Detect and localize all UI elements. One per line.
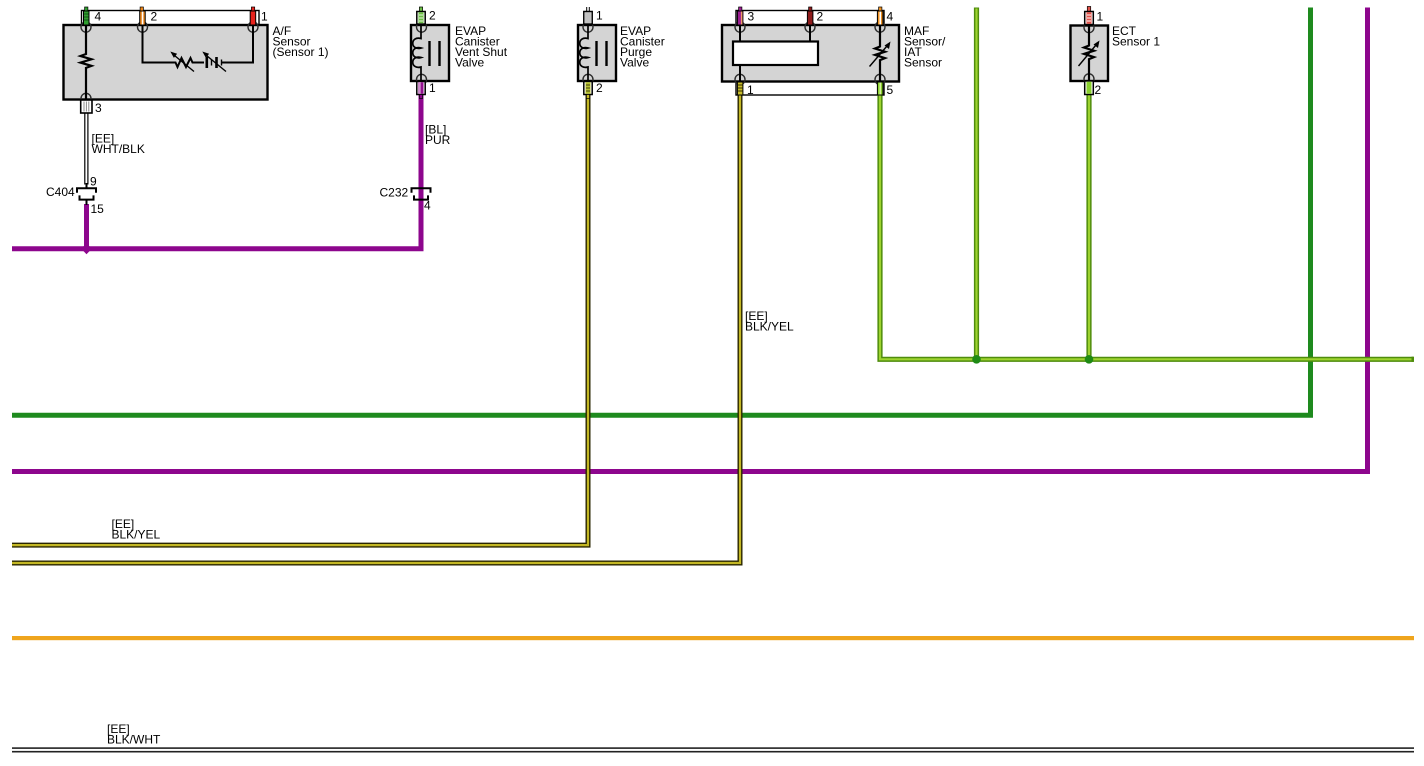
svg-text:BLK/YEL: BLK/YEL [745,320,794,334]
svg-text:1: 1 [1097,10,1104,24]
svg-text:4: 4 [887,10,894,24]
svg-text:15: 15 [91,202,105,216]
svg-text:Valve: Valve [620,56,649,70]
svg-text:4: 4 [95,10,102,24]
svg-text:BLK/YEL: BLK/YEL [112,528,161,542]
svg-text:3: 3 [95,101,102,115]
svg-text:Sensor: Sensor [904,56,942,70]
svg-text:C404: C404 [46,185,75,199]
svg-text:1: 1 [261,10,268,24]
svg-text:2: 2 [429,9,436,23]
svg-text:Valve: Valve [455,56,484,70]
svg-text:1: 1 [429,81,436,95]
svg-text:WHT/BLK: WHT/BLK [92,142,145,156]
svg-text:2: 2 [596,81,603,95]
svg-text:1: 1 [596,9,603,23]
svg-text:BLK/WHT: BLK/WHT [107,733,161,747]
svg-text:3: 3 [748,10,755,24]
svg-text:PUR: PUR [425,133,451,147]
svg-text:5: 5 [887,83,894,97]
svg-text:2: 2 [151,10,158,24]
svg-text:(Sensor 1): (Sensor 1) [273,45,329,59]
svg-text:1: 1 [747,83,754,97]
svg-text:C232: C232 [380,186,409,200]
svg-text:4: 4 [424,199,431,213]
svg-text:Sensor 1: Sensor 1 [1112,35,1160,49]
svg-text:2: 2 [1095,83,1102,97]
svg-text:2: 2 [817,10,824,24]
svg-text:9: 9 [90,175,97,189]
